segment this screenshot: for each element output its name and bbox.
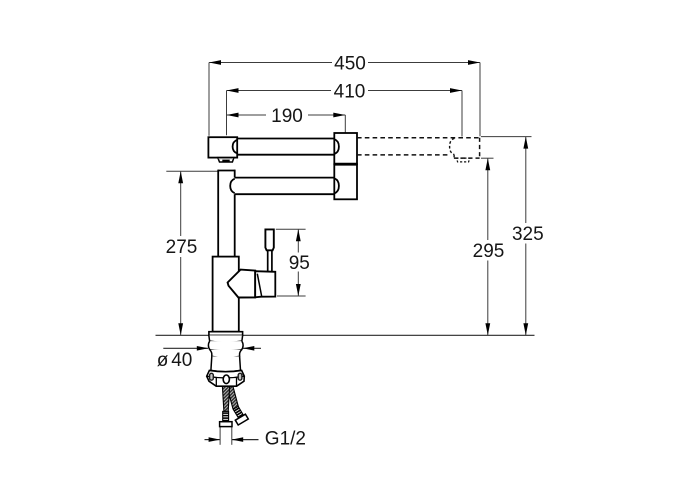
handle valve cone <box>228 270 256 298</box>
extension line 450 left <box>208 63 210 136</box>
svg-text:ø: ø <box>157 350 169 371</box>
lever knob <box>265 229 273 250</box>
nut hole right <box>238 373 242 380</box>
dashed extended spout bottom line <box>357 154 450 156</box>
handle base block <box>255 271 275 297</box>
dimension 95 line <box>297 229 299 296</box>
extension line 410 right <box>461 91 463 137</box>
upper arm tube <box>237 139 334 155</box>
nut facet lines <box>216 378 236 386</box>
base flange <box>209 332 243 336</box>
dimension diameter 40 leader right <box>243 347 261 349</box>
hose end fitting <box>220 422 232 427</box>
svg-text:190: 190 <box>271 106 303 127</box>
dimension 190 line <box>227 114 346 116</box>
dashed spout head bottom edge <box>454 157 480 159</box>
nut hole center <box>223 375 229 384</box>
flexible hose vertical <box>222 387 229 412</box>
dimension 295 line <box>487 158 489 335</box>
dimension G1/2 line right <box>232 439 259 441</box>
ball socket arc lower in joint block <box>334 178 339 193</box>
lower arm tube <box>235 178 335 195</box>
shank bead below deck <box>209 335 243 342</box>
svg-text:295: 295 <box>473 241 505 262</box>
dimension 275 arrowheads <box>178 171 183 335</box>
handle front edge <box>257 274 261 297</box>
dimension 410 line <box>227 90 463 92</box>
ball socket arc in column <box>230 179 235 193</box>
nut hole left <box>210 373 214 380</box>
dimension 190 arrowheads <box>227 113 346 118</box>
dimension 275 line <box>180 171 182 335</box>
extension line 275 top <box>166 170 218 172</box>
flexible hose angled threaded section <box>233 406 243 418</box>
dashed spout head lower left edge <box>453 155 455 158</box>
extension line 95 top <box>276 228 306 230</box>
svg-text:450: 450 <box>334 53 366 74</box>
svg-text:40: 40 <box>171 350 192 371</box>
svg-text:325: 325 <box>512 224 544 245</box>
ball socket arc in spout head <box>233 140 238 154</box>
extension line 190 right <box>344 115 346 133</box>
dashed ball socket arc <box>450 138 455 154</box>
dimension 325 line <box>525 137 527 336</box>
dimension 410 arrowheads <box>227 88 463 93</box>
aerator <box>218 158 234 162</box>
dimension 450 line <box>209 62 480 64</box>
joint block divider <box>334 163 357 166</box>
dashed spout head right edge <box>479 138 481 158</box>
flexible hose angled hatched section <box>227 387 239 409</box>
shank bulge <box>208 341 243 351</box>
dashed extended spout top line <box>357 137 480 139</box>
svg-text:95: 95 <box>289 253 310 274</box>
svg-text:410: 410 <box>334 81 366 102</box>
extension line 450 right <box>479 63 481 137</box>
extension line 325 top <box>481 136 532 138</box>
column wide body <box>213 257 239 332</box>
column upper section <box>218 170 235 257</box>
extension line 410-190 left <box>226 91 228 136</box>
joint block lower <box>334 164 357 199</box>
dimension diameter 40 leader left <box>163 347 208 349</box>
svg-text:275: 275 <box>166 237 198 258</box>
mounting nut <box>207 370 245 386</box>
shank waist <box>210 350 242 358</box>
dimension 95 arrowheads <box>296 229 301 296</box>
extension line 95 bottom <box>277 295 306 297</box>
nut band bottom curve <box>207 376 245 378</box>
dimension G1/2 line left <box>205 439 221 441</box>
dimension 450 arrowheads <box>209 60 480 65</box>
spout head <box>208 137 237 157</box>
joint block upper <box>334 133 357 164</box>
dimension 325 arrowheads <box>523 137 528 336</box>
shank barrel <box>211 356 241 371</box>
hose threaded tail <box>223 411 229 421</box>
flexible hose angled end fitting <box>235 414 248 425</box>
ball socket arc upper in joint block <box>334 139 339 154</box>
svg-text:G1/2: G1/2 <box>265 429 306 450</box>
extension lines G1/2 <box>219 427 221 445</box>
extension line 295 top <box>481 157 494 159</box>
dimension 295 arrowheads <box>485 158 490 335</box>
dashed aerator <box>456 158 470 162</box>
counter deck line <box>156 334 535 336</box>
handle stem <box>268 250 272 271</box>
